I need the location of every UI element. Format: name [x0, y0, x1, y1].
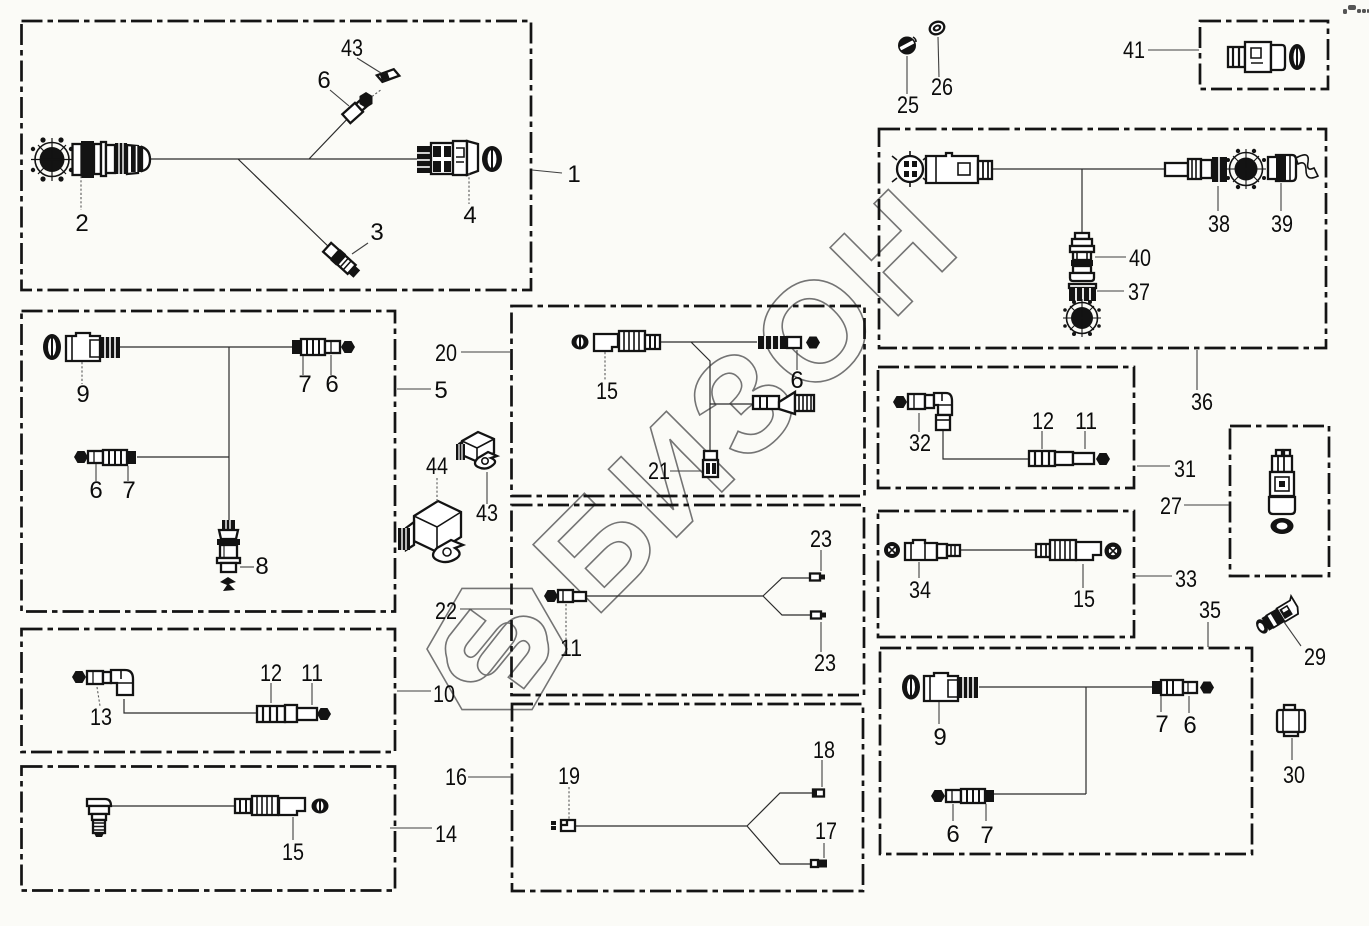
- watermark text: [505, 157, 989, 641]
- box 31 wires: [943, 430, 1029, 459]
- leader 27: [1184, 504, 1229, 506]
- leader 16: [468, 776, 511, 778]
- connector 6 in box 1: [342, 98, 368, 123]
- svg-text:23: 23: [814, 650, 836, 677]
- ring 26: [928, 19, 947, 36]
- connector 6 box35 top: [1183, 682, 1197, 693]
- connector 2 body: [73, 141, 151, 178]
- leader 9: [81, 362, 83, 384]
- leader 6b: [796, 350, 798, 370]
- leader 32: [918, 413, 920, 432]
- screw 25: [899, 37, 916, 54]
- connector 36 left body: [926, 153, 992, 183]
- svg-text:39: 39: [1271, 211, 1293, 238]
- svg-text:3: 3: [370, 219, 383, 246]
- leader 43a: [357, 58, 381, 73]
- leader 6b35: [952, 804, 954, 821]
- connector 38 round face: [1226, 149, 1266, 189]
- box 35: [880, 648, 1252, 854]
- box 33: [878, 511, 1134, 637]
- svg-text:43: 43: [341, 35, 363, 62]
- leader 23t: [820, 550, 822, 571]
- leader 9b: [938, 702, 940, 724]
- leader 15c: [1082, 564, 1084, 588]
- svg-text:7: 7: [980, 822, 993, 849]
- leader 23b: [820, 622, 822, 652]
- connector 15 box33: [1036, 540, 1101, 560]
- connector 12 box10: [257, 705, 297, 722]
- svg-text:6: 6: [790, 367, 803, 394]
- leader 44: [436, 478, 438, 503]
- leader 19: [568, 787, 570, 819]
- box 20 wires: [660, 342, 757, 451]
- sensor 8: [217, 520, 240, 591]
- connector 40: [1070, 233, 1094, 281]
- leader 14: [390, 827, 432, 829]
- cap oval 9 box35: [902, 675, 920, 700]
- leader 12b: [1041, 431, 1043, 449]
- leader 15b: [604, 352, 606, 381]
- svg-text:7: 7: [122, 477, 135, 504]
- svg-text:30: 30: [1283, 762, 1305, 789]
- connector 13: [87, 670, 133, 695]
- box 20: [512, 306, 865, 496]
- svg-text:15: 15: [282, 839, 304, 866]
- nut box5 top: [341, 341, 355, 353]
- nut 13: [72, 671, 86, 683]
- connector 15 box20: [594, 331, 660, 351]
- leader 7t: [302, 356, 304, 375]
- leader 11b: [565, 604, 567, 639]
- svg-text:18: 18: [813, 737, 835, 764]
- leader 36: [1196, 350, 1198, 390]
- connector 32: [908, 393, 952, 430]
- leader 17: [823, 843, 825, 858]
- svg-text:32: 32: [909, 430, 931, 457]
- svg-text:9: 9: [76, 381, 89, 408]
- box 22: [512, 505, 865, 695]
- terminal 23 bottom: [811, 612, 826, 619]
- leader 10: [397, 690, 431, 692]
- svg-text:22: 22: [435, 598, 457, 625]
- connector 29: [1252, 596, 1301, 636]
- leader 40: [1095, 256, 1126, 258]
- svg-text:8: 8: [255, 553, 268, 580]
- connector 6 box35 bottom: [946, 790, 961, 802]
- box 22 wires: [586, 578, 811, 615]
- cap 4 oval: [482, 146, 502, 172]
- box 16 wires: [575, 793, 813, 864]
- svg-text:38: 38: [1208, 211, 1230, 238]
- terminal 18: [813, 790, 824, 797]
- connector 9 box5 body: [66, 333, 120, 361]
- nut box35 top: [1200, 682, 1214, 694]
- leader 20: [461, 351, 511, 353]
- box 41: [1200, 21, 1328, 89]
- connector 30: [1277, 705, 1305, 736]
- nut 11 box22: [544, 590, 558, 602]
- cap box33 round: [1105, 543, 1122, 560]
- leader 31: [1137, 465, 1170, 467]
- svg-text:41: 41: [1123, 37, 1145, 64]
- connector 3: [322, 242, 362, 280]
- svg-text:5: 5: [434, 377, 447, 404]
- leader 4: [468, 173, 470, 204]
- nut 32: [893, 396, 907, 408]
- box 16: [512, 704, 863, 891]
- leader 18: [821, 760, 823, 787]
- box 5: [22, 311, 396, 612]
- cap 34 round: [884, 542, 900, 558]
- leader 6a: [330, 90, 349, 106]
- svg-text:7: 7: [298, 371, 311, 398]
- connector 39: [1268, 155, 1318, 181]
- connector 7 box35 bottom: [961, 789, 994, 803]
- svg-text:12: 12: [1032, 408, 1054, 435]
- leader 11c: [1084, 431, 1086, 449]
- leader 3: [352, 243, 368, 254]
- leader 8: [240, 566, 254, 568]
- leader 43b: [486, 472, 488, 504]
- svg-text:2: 2: [75, 210, 88, 237]
- svg-text:31: 31: [1174, 456, 1196, 483]
- leader 39: [1280, 183, 1282, 211]
- svg-text:43: 43: [476, 500, 498, 527]
- connector 4: [417, 141, 478, 175]
- leader 7t35: [1160, 696, 1162, 712]
- nut box20: [806, 337, 820, 349]
- leader 34: [918, 562, 920, 578]
- connector 7 box5 left: [103, 450, 136, 465]
- leader 5: [397, 388, 431, 390]
- connector 7 box35 top: [1152, 680, 1183, 695]
- leader 29: [1284, 622, 1301, 646]
- svg-text:23: 23: [810, 526, 832, 553]
- svg-text:7: 7: [1155, 711, 1168, 738]
- leader 26: [938, 37, 939, 77]
- svg-text:35: 35: [1199, 597, 1221, 624]
- boot connector box14: [87, 799, 111, 837]
- leader 21: [670, 470, 702, 472]
- connector 11 box31: [1073, 453, 1094, 464]
- wire harness box 1 main: [150, 114, 417, 250]
- svg-text:16: 16: [445, 764, 467, 791]
- nut 11 box10: [317, 708, 331, 720]
- connector 11 box22: [558, 590, 586, 602]
- box 33 wire: [960, 549, 1036, 551]
- leader 11a: [311, 683, 313, 705]
- box 27: [1230, 426, 1329, 576]
- svg-text:6: 6: [89, 477, 102, 504]
- connector 36 bottom round face: [1063, 299, 1101, 337]
- svg-text:27: 27: [1160, 493, 1182, 520]
- leader 22: [460, 608, 511, 610]
- svg-text:26: 26: [931, 74, 953, 101]
- leader 35: [1207, 622, 1209, 647]
- svg-text:11: 11: [1075, 408, 1097, 435]
- leader 2: [80, 176, 82, 210]
- leader 6l: [95, 464, 97, 481]
- svg-text:11: 11: [560, 635, 582, 662]
- connector 12 box31: [1029, 451, 1073, 466]
- connector 21: [703, 451, 718, 477]
- box 5 wires: [120, 347, 292, 520]
- nut box31: [1096, 453, 1110, 465]
- svg-text:36: 36: [1191, 389, 1213, 416]
- svg-text:15: 15: [1073, 586, 1095, 613]
- cap oval 15 box20: [572, 335, 589, 350]
- svg-text:20: 20: [435, 340, 457, 367]
- svg-text:21: 21: [648, 458, 670, 485]
- connector 19: [551, 820, 575, 831]
- nut near 6 box 1: [360, 92, 373, 108]
- connector 41: [1228, 42, 1305, 72]
- svg-text:37: 37: [1128, 279, 1150, 306]
- svg-text:14: 14: [435, 821, 457, 848]
- connector 6 box20 right: [758, 336, 801, 349]
- funnel assembly box20: [753, 392, 814, 414]
- box 1: [22, 21, 532, 290]
- cap oval box14: [312, 799, 329, 814]
- box 14 wire: [111, 805, 235, 807]
- connector 34: [905, 540, 960, 560]
- terminal 17: [811, 860, 827, 868]
- svg-text:4: 4: [463, 202, 476, 229]
- svg-text:11: 11: [301, 660, 323, 687]
- svg-text:29: 29: [1304, 644, 1326, 671]
- connector 38: [1165, 157, 1227, 182]
- watermark logo hexagon: [401, 553, 592, 744]
- box 14: [22, 767, 396, 891]
- leader 41: [1148, 49, 1199, 51]
- svg-text:6: 6: [1183, 712, 1196, 739]
- connector 2 round face: [31, 137, 73, 181]
- leader 33: [1135, 575, 1172, 577]
- svg-text:6: 6: [317, 67, 330, 94]
- svg-text:6: 6: [946, 821, 959, 848]
- connector 15 box14: [235, 796, 305, 815]
- leader 38: [1217, 186, 1219, 211]
- dashed link to 43: [372, 89, 382, 97]
- nut box35 bottom: [931, 790, 945, 802]
- leader 37: [1097, 290, 1124, 292]
- connector 9 box5 cap: [43, 334, 61, 360]
- svg-text:34: 34: [909, 577, 931, 604]
- svg-text:15: 15: [596, 378, 618, 405]
- svg-text:17: 17: [815, 818, 837, 845]
- leader 30: [1291, 738, 1293, 760]
- box 36: [879, 129, 1326, 348]
- leader 13: [97, 687, 100, 706]
- box 10: [22, 629, 396, 752]
- svg-text:40: 40: [1129, 245, 1151, 272]
- svg-text:13: 13: [90, 704, 112, 731]
- leader 12a: [270, 683, 272, 703]
- leader 6t35: [1188, 696, 1190, 713]
- svg-text:6: 6: [325, 371, 338, 398]
- leader 7l: [127, 466, 129, 481]
- svg-text:44: 44: [426, 453, 448, 480]
- leader 7b35: [985, 804, 987, 821]
- box 36 wires: [992, 169, 1167, 233]
- relay 44: [398, 501, 463, 562]
- leader 1: [532, 170, 562, 173]
- connector 6 box5 left: [88, 451, 103, 463]
- svg-text:9: 9: [933, 724, 946, 751]
- relay 43: [456, 432, 497, 469]
- terminal 43 in box 1: [377, 68, 399, 83]
- connector 9 box35: [924, 673, 978, 701]
- box 10 wires: [124, 699, 257, 713]
- connector 27 stack: [1269, 450, 1295, 534]
- connector 11 box10: [297, 708, 317, 720]
- nut box5 left: [74, 451, 88, 463]
- svg-text:10: 10: [433, 681, 455, 708]
- leader 25: [906, 56, 908, 94]
- box 35 wires: [979, 687, 1152, 794]
- leader 6t: [330, 355, 332, 375]
- svg-text:19: 19: [558, 763, 580, 790]
- svg-text:12: 12: [260, 660, 282, 687]
- svg-text:25: 25: [897, 92, 919, 119]
- connector 7 box5 top: [292, 339, 325, 355]
- svg-text:1: 1: [567, 161, 580, 188]
- terminal 23 top: [810, 574, 825, 581]
- connector 6 box5 top: [325, 341, 340, 353]
- box 31: [878, 367, 1134, 488]
- connector 36 left round: [892, 151, 928, 187]
- svg-text:33: 33: [1175, 566, 1197, 593]
- leader 15a: [292, 817, 294, 840]
- connector 37: [1069, 284, 1096, 301]
- corner print marks: [1343, 5, 1369, 14]
